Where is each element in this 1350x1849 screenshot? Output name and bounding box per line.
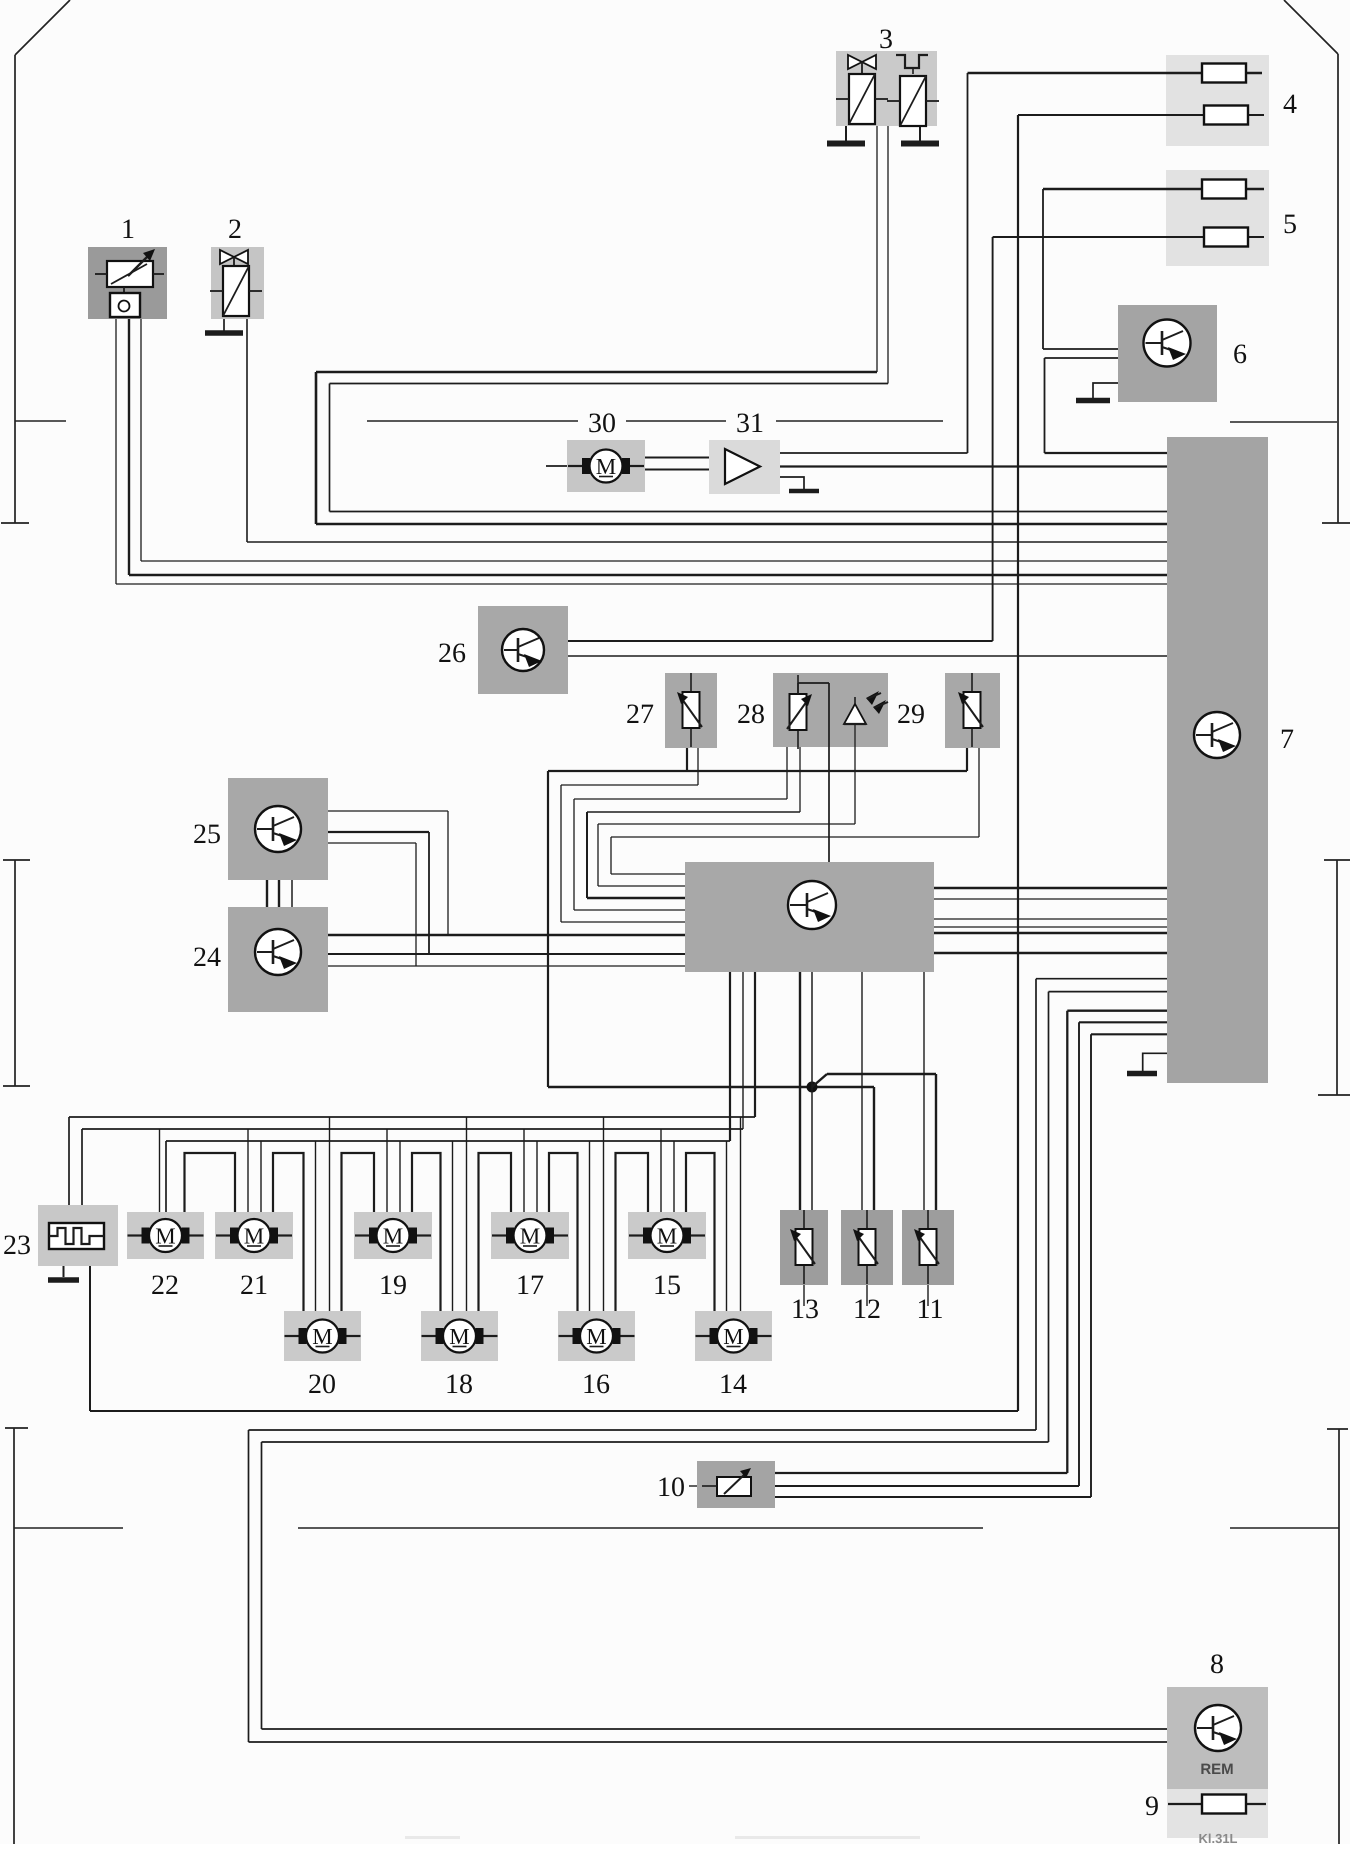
motor chain arch wires bbox=[185, 1153, 715, 1311]
motor 15 symbol bbox=[629, 1234, 643, 1236]
transistor symbol control unit 25 bbox=[255, 806, 301, 852]
ground amplifier 31 bbox=[780, 477, 819, 491]
svg-text:7: 7 bbox=[1280, 724, 1294, 755]
svg-text:M: M bbox=[312, 1324, 332, 1349]
motor 18 box bbox=[421, 1311, 498, 1361]
wires sensor 10 to central unit 7 bbox=[775, 1011, 1167, 1497]
resistor symbol 11 bbox=[927, 1210, 929, 1229]
svg-text:28: 28 bbox=[737, 699, 765, 730]
motor 14 symbol bbox=[696, 1335, 710, 1337]
sensor 10 symbol bbox=[702, 1468, 751, 1496]
svg-text:M: M bbox=[155, 1224, 175, 1249]
control unit 25 bbox=[228, 778, 328, 880]
wire sensor 28 pin1 wrap to middle block bbox=[574, 747, 787, 910]
resistor block 11 bbox=[902, 1210, 954, 1285]
transistor symbol control unit 8 bbox=[1195, 1705, 1241, 1751]
svg-text:12: 12 bbox=[853, 1294, 881, 1325]
wire loop inner: central unit 7 to control unit 8 bbox=[262, 992, 1168, 1729]
transistor symbol control unit 26 bbox=[502, 629, 544, 671]
motor 19 box bbox=[354, 1212, 432, 1259]
resistor 11 bottom stub bbox=[927, 1285, 929, 1306]
svg-text:M: M bbox=[586, 1324, 606, 1349]
control unit 6 bbox=[1118, 305, 1217, 402]
svg-text:8: 8 bbox=[1210, 1649, 1224, 1680]
transistor symbol middle block bbox=[788, 881, 836, 929]
wire sensor 1 pin3 to central unit 7 bbox=[141, 319, 1167, 561]
faint caption remnants bbox=[405, 1836, 460, 1839]
wire control unit 26 to central unit 7 bbox=[568, 655, 1167, 657]
svg-text:21: 21 bbox=[240, 1270, 268, 1301]
motor 22 symbol bbox=[128, 1234, 142, 1236]
wires middle block bottom pins to motor bundle bbox=[730, 972, 755, 1141]
resistor symbol in 28 bbox=[787, 675, 829, 749]
svg-text:13: 13 bbox=[791, 1294, 819, 1325]
wire fuse4 lower via long vertical to pulse generator 23 bbox=[90, 115, 1264, 1411]
resistor block 12 bbox=[841, 1210, 893, 1285]
svg-text:M: M bbox=[657, 1224, 677, 1249]
fuse symbol 9 bbox=[1202, 1795, 1246, 1814]
motor bundle line 1 (to pulse generator 23) bbox=[69, 1117, 755, 1205]
ground symbols for valve unit 3 bbox=[827, 126, 939, 144]
svg-text:4: 4 bbox=[1283, 89, 1297, 120]
central control unit 7 bbox=[1167, 437, 1268, 1083]
svg-text:30: 30 bbox=[588, 408, 616, 439]
fuse box 5 bbox=[1166, 170, 1269, 266]
valve unit 3 bbox=[836, 51, 937, 126]
svg-text:23: 23 bbox=[3, 1230, 31, 1261]
wire motor 30 left stub bbox=[546, 465, 567, 467]
svg-text:REM: REM bbox=[1200, 1761, 1233, 1778]
wire fuse4 upper to amplifier 31 bbox=[780, 73, 1262, 453]
sensor 1 symbol bbox=[95, 249, 164, 317]
svg-text:M: M bbox=[383, 1224, 403, 1249]
svg-text:20: 20 bbox=[308, 1369, 336, 1400]
ground control unit 6 bbox=[1076, 383, 1118, 401]
resistor symbol 12 bbox=[866, 1210, 868, 1229]
valve block 2 symbol bbox=[210, 250, 262, 316]
motor 14 box bbox=[695, 1311, 772, 1361]
wire middle block pin to junction to resistor 13 bbox=[811, 972, 813, 1210]
amplifier 31 symbol bbox=[725, 449, 760, 484]
motor 20 box bbox=[284, 1311, 361, 1361]
svg-text:9: 9 bbox=[1145, 1791, 1159, 1822]
motor 21 box bbox=[215, 1212, 293, 1259]
motor 17 box bbox=[491, 1212, 569, 1259]
svg-text:M: M bbox=[596, 454, 616, 479]
resistor block 29 bbox=[945, 673, 1000, 748]
svg-text:26: 26 bbox=[438, 638, 466, 669]
wires control unit 24 to middle block bbox=[328, 935, 685, 966]
svg-text:10: 10 bbox=[657, 1472, 685, 1503]
amplifier 31 box bbox=[709, 440, 780, 494]
svg-text:6: 6 bbox=[1233, 339, 1247, 370]
motor pins row 2 rising to bundle bbox=[316, 1117, 741, 1311]
motor 19 symbol bbox=[355, 1234, 369, 1236]
label leader for sensor 10 bbox=[689, 1485, 697, 1487]
valve block 2 bbox=[211, 247, 264, 319]
valve unit 3 left solenoid symbol bbox=[836, 55, 888, 124]
svg-text:27: 27 bbox=[626, 699, 654, 730]
svg-text:1: 1 bbox=[121, 214, 135, 245]
wire resistor 27 right wrap to middle block bbox=[561, 748, 698, 922]
pulse generator 23 bbox=[38, 1205, 118, 1266]
resistor block 27 bbox=[665, 673, 717, 748]
sensor block 28 bbox=[773, 673, 888, 747]
svg-text:18: 18 bbox=[445, 1369, 473, 1400]
fuse box 4 bbox=[1166, 55, 1269, 146]
wire resistor 27 left + resistor 29 left to junction net bbox=[548, 748, 967, 1087]
wire valve block 2 to central unit 7 bbox=[247, 319, 1167, 542]
central locking unit (middle block) bbox=[685, 862, 934, 972]
svg-text:29: 29 bbox=[897, 699, 925, 730]
fuse 9 box bbox=[1167, 1789, 1268, 1838]
wire junction to resistor 11 via diagonal bbox=[812, 1074, 936, 1210]
sensor block 1 bbox=[88, 247, 167, 319]
car body door lines middle bbox=[3, 860, 1350, 1095]
wire valve unit 3 inner loop to central unit 7 bbox=[330, 126, 1168, 512]
svg-text:24: 24 bbox=[193, 942, 221, 973]
wire resistor 29 right wrap to middle block bbox=[611, 748, 979, 874]
control unit 26 bbox=[478, 606, 568, 694]
wire sensor 28 pin3 to middle block top bbox=[828, 683, 830, 862]
fuse symbols in fuse box 5 bbox=[1202, 180, 1246, 199]
wire sensor 28 led pin wrap to middle block bbox=[598, 724, 855, 886]
wire sensor 1 pin2 to central unit 7 bbox=[129, 319, 1167, 575]
svg-text:14: 14 bbox=[719, 1369, 747, 1400]
control unit 24 bbox=[228, 907, 328, 1012]
resistor 13 bottom stub bbox=[803, 1285, 805, 1306]
junction dot bbox=[807, 1082, 818, 1093]
motor 18 symbol bbox=[422, 1335, 436, 1337]
svg-text:M: M bbox=[520, 1224, 540, 1249]
wires motor 30 to amplifier 31 bbox=[645, 458, 709, 470]
ground central unit 7 bbox=[1127, 1053, 1167, 1073]
wire fuse5 lower to control unit 26 bbox=[568, 237, 1264, 641]
wire fuse 9 bbox=[1168, 1803, 1266, 1805]
wire sensor 28 pin2 wrap to middle block bbox=[587, 747, 800, 898]
svg-text:17: 17 bbox=[516, 1270, 544, 1301]
motor 21 symbol bbox=[216, 1234, 230, 1236]
motor bundle line 2 bbox=[82, 1129, 743, 1205]
car body outline bottom bbox=[5, 1428, 1348, 1844]
wire sensor 1 pin1 to central unit 7 bbox=[116, 319, 1167, 584]
transistor symbol control unit 24 bbox=[255, 929, 301, 975]
control unit 8 REM bbox=[1167, 1687, 1268, 1789]
resistor symbol 29 bbox=[971, 673, 973, 692]
transistor symbol central unit 7 bbox=[1194, 712, 1240, 758]
svg-text:19: 19 bbox=[379, 1270, 407, 1301]
svg-text:25: 25 bbox=[193, 819, 221, 850]
sensor 10 bbox=[697, 1461, 775, 1508]
motor 22 box bbox=[127, 1212, 204, 1259]
motor 15 box bbox=[628, 1212, 706, 1259]
motor 20 symbol bbox=[285, 1335, 299, 1337]
wires between control units 25 and 24 bbox=[267, 880, 292, 907]
ground pulse generator 23 bbox=[48, 1266, 79, 1280]
wires control unit 25 wrap down bbox=[328, 811, 448, 966]
motor symbol 30 bbox=[568, 465, 582, 467]
svg-text:22: 22 bbox=[151, 1270, 179, 1301]
motor 16 symbol bbox=[559, 1335, 573, 1337]
svg-text:3: 3 bbox=[879, 24, 893, 55]
transistor symbol control unit 6 bbox=[1144, 320, 1191, 367]
resistor 12 bottom stub bbox=[866, 1285, 868, 1306]
svg-text:M: M bbox=[449, 1324, 469, 1349]
motor bundle line 3 bbox=[166, 1141, 730, 1212]
svg-text:M: M bbox=[244, 1224, 264, 1249]
wire control unit 6 to central unit 7 bbox=[1045, 358, 1168, 453]
resistor symbol 13 bbox=[803, 1210, 805, 1229]
wire loop outer: central unit 7 to control unit 8 bbox=[249, 979, 1168, 1742]
resistor block 13 bbox=[780, 1210, 828, 1285]
svg-text:11: 11 bbox=[917, 1294, 944, 1325]
wire amplifier 31 to central unit 7 bbox=[780, 465, 1167, 467]
svg-text:5: 5 bbox=[1283, 209, 1297, 240]
wires middle block pins to resistors 13 12 11 bbox=[800, 972, 924, 1210]
pulse generator 23 symbol bbox=[49, 1223, 104, 1249]
svg-text:31: 31 bbox=[736, 408, 764, 439]
motor 30 box bbox=[567, 440, 645, 492]
resistor symbol 27 bbox=[690, 673, 692, 692]
car body outline top bbox=[1, 0, 1350, 523]
wire valve unit 3 outer loop to central unit 7 bbox=[316, 126, 1167, 524]
wire fuse5 upper to control unit 6 bbox=[1043, 189, 1264, 349]
svg-text:2: 2 bbox=[228, 214, 242, 245]
motor 16 box bbox=[558, 1311, 635, 1361]
svg-text:Kl.31L: Kl.31L bbox=[1198, 1831, 1237, 1844]
led symbol in 28 bbox=[844, 691, 888, 724]
car body dash line (interrupted by labels 30/31) bbox=[367, 420, 943, 422]
ground valve block 2 bbox=[205, 319, 243, 333]
fuse symbols in fuse box 4 bbox=[1202, 64, 1246, 83]
svg-text:M: M bbox=[723, 1324, 743, 1349]
svg-text:15: 15 bbox=[653, 1270, 681, 1301]
motor 17 symbol bbox=[492, 1234, 506, 1236]
wires middle block to central unit 7 bbox=[934, 888, 1167, 953]
svg-text:16: 16 bbox=[582, 1369, 610, 1400]
valve unit 3 right pulse solenoid symbol bbox=[887, 55, 939, 126]
wire junction branch to resistor 12 bbox=[873, 1087, 875, 1210]
motor pins row 1 rising to bundle bbox=[160, 1129, 675, 1212]
